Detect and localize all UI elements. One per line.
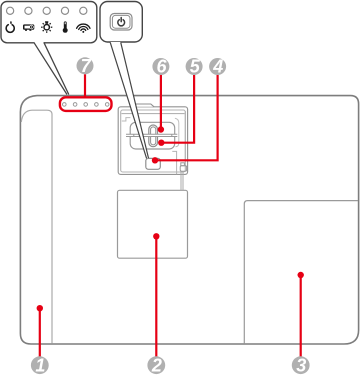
svg-text:4: 4 [212,57,223,77]
svg-text:5: 5 [190,57,201,77]
lamp icon [41,21,52,33]
callout circle 5 [186,58,203,75]
red callout line+dot 4 [155,75,218,160]
dial recess [130,122,175,149]
svg-text:6: 6 [156,57,167,77]
housing left step [122,118,131,121]
wireless icon [77,24,90,33]
red callout line+dot 1 [39,308,41,357]
lens housing outer [118,107,187,175]
power (standby) icon [6,22,14,32]
svg-text:2: 2 [151,356,162,375]
svg-text:3: 3 [296,356,306,375]
red highlight rect around indicator lights (callout 7) [60,97,112,111]
callout circle 1 [31,356,49,374]
callout circle 3 [292,356,310,374]
vertical lens shift dial (callout 6) [149,125,158,147]
callout circle 6 [152,58,169,75]
power button callout balloon [100,2,142,43]
callout circle 4 [209,58,226,75]
power button in balloon [110,14,132,31]
latch next to housing [172,151,176,174]
left panel seam (callout 1 area) [21,110,52,343]
red callout line+dot 2 [155,236,157,357]
power button on body (callout 4) [146,158,161,169]
housing bevel line [122,113,185,115]
red callout line+dot 3 [300,275,302,357]
indicator lights row on body [63,103,109,107]
svg-text:1: 1 [35,356,45,375]
recess surround right edge [175,118,179,147]
housing right seam [184,111,186,161]
balloon 1 tail [34,42,69,95]
lamp cover (callout 2 area) [118,190,188,258]
callout circle 2 [147,356,165,374]
lens housing top tab [135,104,154,107]
red callout line+dot 6 [160,75,162,130]
temp icon [63,21,68,32]
indicator circles in balloon [7,7,87,14]
balloon 2 tail [110,42,148,158]
horizontal lens shift dial bar (callout 5) [126,134,177,136]
status (projector) icon [23,24,34,30]
red callout line 7 [84,74,86,97]
projector body outline [20,96,358,344]
housing lid seam [121,110,186,172]
red callout line+dot 5 [161,75,194,143]
connector lines latch to lamp cover [180,171,182,190]
svg-text:7: 7 [81,56,92,76]
status lights callout balloon [1,2,97,43]
callout circle 7 [77,57,94,74]
vent area (callout 3) [244,201,358,344]
